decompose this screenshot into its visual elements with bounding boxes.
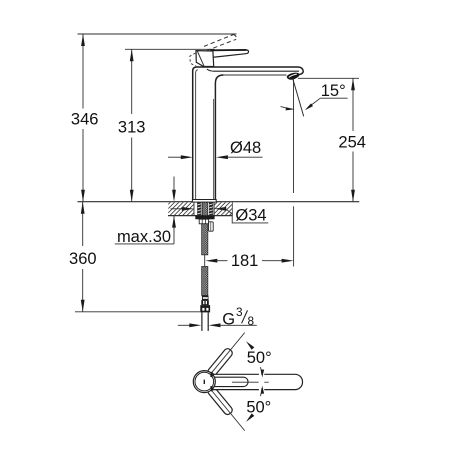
dimension 313: [118, 49, 146, 201]
hose adapter: [199, 219, 208, 224]
top view: lever joint shadows: [210, 372, 214, 378]
svg-text:15°: 15°: [321, 82, 346, 100]
handle base rotated position (dashed): [190, 53, 197, 66]
water stream vertical reference line: [293, 80, 295, 194]
top view: handle inner contour: [205, 377, 248, 386]
water stream 15 deg line: [293, 80, 304, 117]
countertop top line: [78, 201, 193, 203]
top view: centre line: [232, 381, 259, 383]
dimension 360: [69, 202, 97, 312]
body right edge with fillet: [215, 75, 223, 200]
svg-text:50°: 50°: [247, 349, 272, 367]
mounting hole edges: [193, 202, 195, 215]
top view: handle lowered 50 down: [206, 385, 233, 416]
50 deg upper angle arrows: [246, 341, 264, 377]
svg-text:Ø34: Ø34: [235, 206, 266, 224]
side outlet fitting: [209, 222, 214, 231]
dimension diameter 48: [168, 139, 263, 159]
faucet body outline: [193, 67, 304, 200]
top view: body circle: [193, 371, 215, 393]
label 15 deg with leader: [305, 82, 348, 110]
handle base: [196, 51, 214, 67]
G3/8 nut: [200, 305, 210, 312]
hose ferrule: [202, 296, 209, 301]
svg-text:3: 3: [236, 305, 243, 319]
svg-text:G: G: [222, 311, 235, 329]
connector collar: [201, 300, 209, 305]
aerator: [287, 73, 299, 79]
handle lever (side view): [211, 50, 249, 58]
svg-text:181: 181: [231, 252, 259, 270]
extension line hose end: [75, 311, 200, 313]
top view: handle raised 50 up: [206, 347, 233, 378]
50 deg lower angle arrows: [246, 386, 264, 422]
dimension diameter 34: [171, 206, 269, 224]
countertop right end: [231, 202, 233, 216]
extension line aerator level: [298, 77, 359, 79]
threaded shank walls: [197, 202, 213, 219]
flex hose through deck: [202, 202, 207, 215]
dimension 254: [338, 78, 366, 201]
flex hose lower segment: [202, 266, 208, 295]
top view: spout/handle horizontal outer: [203, 374, 303, 389]
svg-text:8: 8: [248, 314, 255, 328]
base flange: [192, 200, 216, 203]
dimension max.30: [115, 177, 176, 247]
top view: centre tick: [203, 380, 205, 384]
svg-text:313: 313: [118, 119, 146, 137]
label G 3/8 with arrows: [178, 305, 257, 328]
extension line top (handle max height): [78, 33, 237, 35]
svg-text:Ø48: Ø48: [230, 139, 261, 157]
svg-text:254: 254: [338, 133, 366, 151]
dimension 181: [205, 206, 293, 270]
body left inner edge: [196, 70, 198, 200]
countertop bottom line: [168, 215, 232, 217]
svg-text:max.30: max.30: [117, 228, 171, 246]
top view: handle swing axis lines: [208, 333, 245, 378]
mounting nut: [195, 216, 214, 220]
G3/8 thread tube: [202, 312, 208, 331]
15 deg angle arc arrow: [281, 107, 295, 111]
spout under edge: [207, 69, 299, 71]
svg-text:360: 360: [69, 250, 97, 268]
hose break axis line: [204, 255, 206, 267]
body right inner edge: [213, 99, 215, 200]
flex hose upper segment: [202, 224, 208, 255]
raised handle position (dashed): [204, 35, 236, 51]
svg-text:50°: 50°: [246, 398, 271, 416]
dimension 346: [71, 34, 99, 202]
extension line spout top: [125, 48, 215, 50]
svg-text:346: 346: [71, 110, 99, 128]
